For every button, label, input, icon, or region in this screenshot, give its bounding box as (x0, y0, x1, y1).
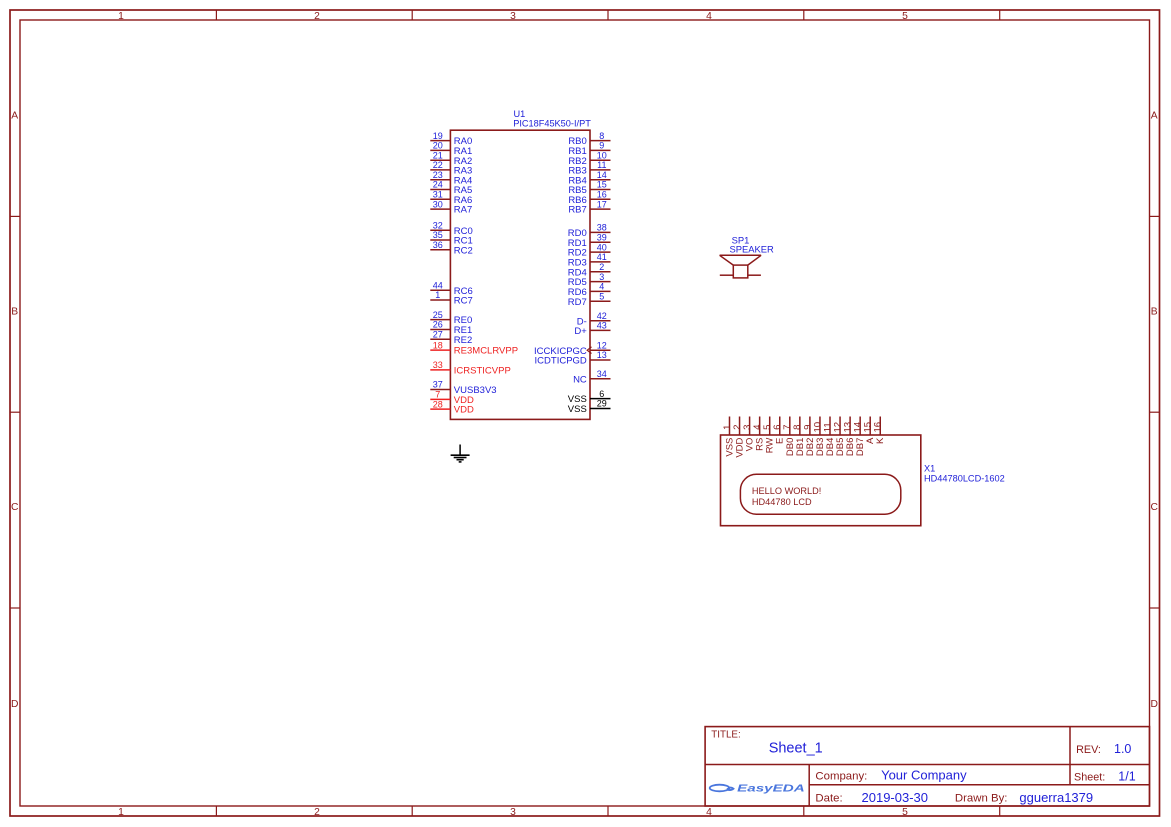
svg-text:Sheet_1: Sheet_1 (769, 741, 823, 757)
svg-text:EasyEDA: EasyEDA (737, 784, 805, 795)
svg-text:ICRSTICVPP: ICRSTICVPP (454, 366, 511, 377)
svg-text:1: 1 (118, 11, 124, 22)
svg-text:PIC18F45K50-I/PT: PIC18F45K50-I/PT (513, 118, 591, 128)
svg-text:1.0: 1.0 (1114, 742, 1131, 756)
svg-text:16: 16 (597, 190, 607, 200)
svg-text:Sheet:: Sheet: (1074, 772, 1105, 784)
svg-text:33: 33 (433, 360, 443, 370)
svg-text:RC2: RC2 (454, 245, 473, 256)
svg-text:28: 28 (433, 399, 443, 409)
svg-text:RC7: RC7 (454, 296, 473, 307)
svg-text:NC: NC (573, 374, 587, 385)
svg-text:29: 29 (597, 399, 607, 409)
svg-text:34: 34 (597, 369, 607, 379)
svg-text:5: 5 (902, 807, 908, 818)
svg-text:B: B (1151, 306, 1158, 317)
svg-text:TITLE:: TITLE: (711, 730, 740, 741)
svg-text:35: 35 (433, 230, 443, 240)
svg-text:HD44780 LCD: HD44780 LCD (752, 497, 812, 507)
svg-text:VDD: VDD (454, 405, 474, 416)
svg-text:3: 3 (599, 272, 604, 282)
svg-text:Drawn By:: Drawn By: (955, 792, 1008, 804)
svg-text:37: 37 (433, 380, 443, 390)
svg-text:30: 30 (433, 199, 443, 209)
svg-text:C: C (1150, 502, 1158, 513)
svg-text:RE2: RE2 (454, 335, 472, 346)
svg-text:K: K (875, 437, 886, 444)
svg-text:6: 6 (599, 389, 604, 399)
svg-text:RD7: RD7 (568, 297, 587, 308)
svg-text:26: 26 (433, 320, 443, 330)
svg-text:18: 18 (433, 340, 443, 350)
svg-text:2: 2 (314, 807, 320, 818)
svg-text:24: 24 (433, 180, 443, 190)
svg-text:D: D (11, 699, 18, 710)
svg-text:4: 4 (706, 11, 712, 22)
svg-text:3: 3 (510, 807, 516, 818)
svg-text:5: 5 (902, 11, 908, 22)
svg-text:2019-03-30: 2019-03-30 (862, 790, 929, 805)
svg-text:31: 31 (433, 190, 443, 200)
svg-text:ICDTICPGD: ICDTICPGD (535, 356, 587, 367)
svg-text:7: 7 (435, 390, 440, 400)
svg-text:4: 4 (706, 807, 712, 818)
svg-text:32: 32 (433, 221, 443, 231)
svg-text:4: 4 (599, 282, 604, 292)
svg-text:43: 43 (597, 321, 607, 331)
svg-text:44: 44 (433, 280, 443, 290)
svg-text:2: 2 (599, 262, 604, 272)
svg-text:21: 21 (433, 150, 443, 160)
svg-text:B: B (11, 306, 18, 317)
svg-text:3: 3 (510, 11, 516, 22)
svg-text:16: 16 (873, 422, 884, 433)
svg-text:1: 1 (118, 807, 124, 818)
svg-text:23: 23 (433, 170, 443, 180)
svg-text:8: 8 (599, 131, 604, 141)
svg-text:25: 25 (433, 310, 443, 320)
svg-text:40: 40 (597, 242, 607, 252)
svg-text:13: 13 (597, 350, 607, 360)
svg-text:D+: D+ (574, 326, 587, 337)
svg-text:20: 20 (433, 141, 443, 151)
svg-text:HD44780LCD-1602: HD44780LCD-1602 (924, 473, 1005, 483)
svg-text:15: 15 (597, 180, 607, 190)
svg-text:Date:: Date: (815, 792, 842, 804)
svg-text:41: 41 (597, 252, 607, 262)
svg-text:REV:: REV: (1076, 744, 1101, 756)
svg-text:RE3MCLRVPP: RE3MCLRVPP (454, 346, 518, 357)
svg-text:39: 39 (597, 232, 607, 242)
svg-text:5: 5 (599, 292, 604, 302)
svg-text:A: A (1151, 110, 1158, 121)
svg-text:D: D (1150, 699, 1157, 710)
svg-text:2: 2 (314, 11, 320, 22)
svg-text:11: 11 (597, 160, 606, 170)
svg-text:27: 27 (433, 329, 443, 339)
svg-text:C: C (11, 502, 19, 513)
svg-text:1: 1 (435, 290, 440, 300)
svg-text:X1: X1 (924, 464, 935, 474)
svg-text:HELLO WORLD!: HELLO WORLD! (752, 486, 821, 496)
svg-text:9: 9 (599, 141, 604, 151)
svg-text:RB7: RB7 (568, 205, 586, 216)
svg-text:14: 14 (597, 170, 607, 180)
svg-text:17: 17 (597, 199, 607, 209)
svg-text:VSS: VSS (568, 404, 587, 415)
svg-text:42: 42 (597, 311, 607, 321)
svg-text:1/1: 1/1 (1118, 769, 1135, 783)
svg-text:A: A (11, 110, 18, 121)
svg-text:38: 38 (597, 223, 607, 233)
svg-text:12: 12 (597, 340, 607, 350)
svg-text:SPEAKER: SPEAKER (730, 243, 775, 254)
svg-text:Your Company: Your Company (881, 768, 967, 783)
svg-text:RA7: RA7 (454, 205, 472, 216)
svg-text:10: 10 (597, 150, 607, 160)
svg-text:19: 19 (433, 131, 443, 141)
svg-text:22: 22 (433, 160, 443, 170)
svg-text:36: 36 (433, 240, 443, 250)
svg-text:gguerra1379: gguerra1379 (1019, 790, 1093, 805)
svg-text:Company:: Company: (815, 771, 867, 783)
